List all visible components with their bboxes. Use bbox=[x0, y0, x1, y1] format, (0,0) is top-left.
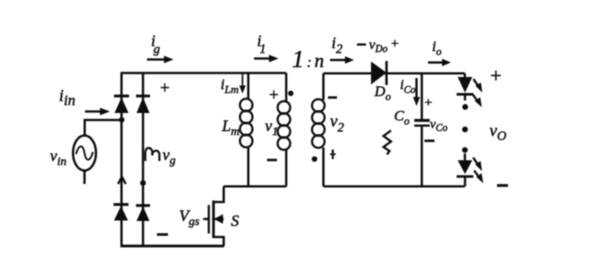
label - vo bbox=[497, 184, 508, 187]
resistor zigzag bbox=[384, 131, 392, 155]
svg-text:i2: i2 bbox=[332, 35, 343, 56]
svg-text:vDo: vDo bbox=[369, 38, 387, 55]
transformer dot primary bbox=[288, 91, 293, 96]
svg-text:+: + bbox=[268, 85, 279, 104]
label - v1 bbox=[267, 159, 277, 161]
svg-text:vin: vin bbox=[50, 148, 66, 168]
current arrow up on left leg bbox=[118, 177, 126, 184]
svg-text:io: io bbox=[432, 39, 442, 58]
node dot right leg bbox=[140, 180, 146, 186]
svg-text:iCo: iCo bbox=[400, 78, 416, 96]
LED D6 bottom bbox=[457, 154, 474, 187]
capacitor Co bbox=[414, 73, 429, 186]
wire bridge left leg bbox=[120, 73, 122, 246]
wire bridge right leg bbox=[142, 73, 144, 246]
svg-text:+: + bbox=[159, 78, 170, 97]
arrow i2 bbox=[330, 56, 354, 63]
LED D5 top bbox=[457, 73, 474, 100]
svg-text:+: + bbox=[424, 96, 433, 111]
svg-text:S: S bbox=[231, 213, 239, 230]
transformer dot secondary bbox=[312, 156, 318, 162]
wire primary bottom bbox=[224, 185, 287, 187]
diode Do bbox=[371, 61, 387, 85]
svg-text:1 : n: 1 : n bbox=[292, 47, 324, 73]
svg-text:ig: ig bbox=[151, 33, 160, 56]
label - vg bbox=[157, 233, 168, 236]
svg-text:Co: Co bbox=[394, 109, 410, 128]
arrow iCo down bbox=[413, 78, 420, 106]
ac source vin bbox=[73, 136, 96, 171]
label vg sine bbox=[145, 147, 175, 167]
arrow ig bbox=[147, 56, 174, 63]
arrow i1 bbox=[254, 55, 279, 62]
svg-text:vO: vO bbox=[490, 121, 508, 143]
diode D3 bridge bottom-left bbox=[114, 205, 129, 221]
wire top rail primary bbox=[121, 72, 287, 74]
svg-text:Vgs: Vgs bbox=[179, 208, 200, 228]
svg-text:+: + bbox=[489, 65, 503, 87]
svg-text:vCo: vCo bbox=[430, 116, 447, 134]
svg-text:iin: iin bbox=[59, 86, 75, 109]
diode D1 bridge top-left bbox=[114, 96, 129, 113]
transistor S mosfet bbox=[204, 186, 224, 246]
transformer secondary winding v2 bbox=[312, 73, 325, 186]
label iLm + arrow bbox=[221, 74, 246, 96]
wire top rail secondary bbox=[323, 72, 464, 74]
diode D4 bridge bottom-right bbox=[136, 206, 150, 222]
label Vgs bbox=[179, 208, 209, 228]
label - v2 bbox=[328, 96, 337, 98]
wire vin top lead bbox=[85, 120, 122, 136]
label - vCo bbox=[425, 140, 435, 143]
wire vin bottom stub bbox=[83, 171, 85, 185]
LED D5 light arrows bbox=[473, 79, 483, 107]
label -vDo+ bbox=[357, 37, 399, 55]
diode D2 bridge top-right bbox=[136, 96, 150, 113]
svg-text:+: + bbox=[390, 37, 399, 52]
svg-text:Lm: Lm bbox=[221, 118, 240, 138]
svg-text:vg: vg bbox=[163, 147, 176, 167]
node dot left leg bbox=[119, 117, 125, 123]
transformer primary winding v1 bbox=[278, 73, 291, 186]
wire bottom rail secondary bbox=[323, 185, 464, 187]
arrow io bbox=[428, 59, 451, 66]
series dots bbox=[462, 104, 468, 153]
svg-text:Do: Do bbox=[374, 84, 392, 103]
svg-text:v2: v2 bbox=[330, 112, 345, 135]
label + v2 bbox=[330, 150, 336, 160]
svg-text:i1: i1 bbox=[257, 33, 266, 56]
inductor Lm coil bbox=[240, 73, 253, 186]
LED D6 light arrows bbox=[473, 158, 483, 184]
svg-text:iLm: iLm bbox=[221, 77, 239, 96]
arrow iin bbox=[85, 108, 110, 115]
wire bottom rail bbox=[121, 245, 225, 248]
svg-text:v1: v1 bbox=[265, 118, 278, 138]
